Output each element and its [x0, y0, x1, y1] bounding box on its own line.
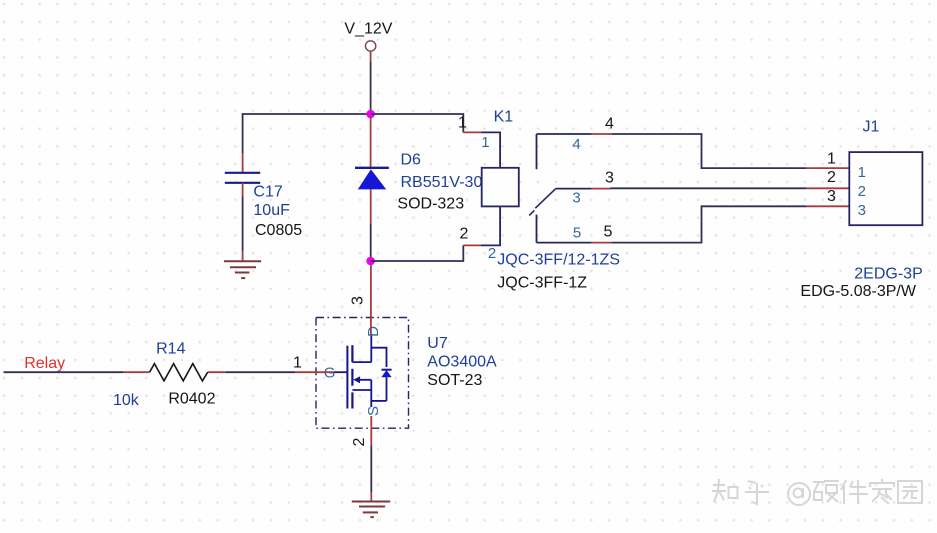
- svg-text:1: 1: [827, 151, 836, 168]
- transistor U7: [293, 265, 497, 446]
- svg-text:3: 3: [605, 170, 614, 187]
- svg-text:C0805: C0805: [255, 222, 302, 239]
- svg-text:10uF: 10uF: [253, 202, 290, 219]
- svg-text:EDG-5.08-3P/W: EDG-5.08-3P/W: [800, 283, 916, 300]
- svg-text:G: G: [324, 364, 336, 381]
- svg-text:2: 2: [351, 437, 368, 446]
- ground (U7 source): [352, 502, 390, 518]
- svg-text:2: 2: [460, 226, 469, 243]
- svg-text:U7: U7: [427, 335, 448, 352]
- svg-text:S: S: [365, 406, 382, 416]
- svg-text:D6: D6: [401, 152, 422, 169]
- svg-text:2EDG-3P: 2EDG-3P: [854, 265, 922, 282]
- svg-text:SOT-23: SOT-23: [427, 372, 482, 389]
- ground (C17): [224, 261, 261, 278]
- wire junction1 to C17: [243, 114, 371, 153]
- svg-text:SOD-323: SOD-323: [397, 195, 464, 212]
- svg-text:D: D: [365, 326, 382, 337]
- junction node V_12V: [366, 110, 375, 119]
- svg-text:10k: 10k: [113, 392, 140, 409]
- wire relay pin3 to J1 pin2: [610, 187, 806, 189]
- wire input: [4, 371, 124, 373]
- svg-text:3: 3: [827, 188, 836, 205]
- connector J1: [800, 119, 922, 301]
- svg-text:JQC-3FF/12-1ZS: JQC-3FF/12-1ZS: [497, 252, 620, 269]
- capacitor C17: [225, 153, 302, 239]
- wire U7 source to ground: [370, 445, 372, 492]
- wire junction1 to relay coil pin1: [371, 114, 464, 132]
- wire R14 to U7 gate: [225, 371, 295, 373]
- relay K1: [458, 109, 620, 292]
- svg-text:Relay: Relay: [24, 355, 65, 372]
- wire C17 to ground: [242, 197, 244, 251]
- watermark: [712, 479, 922, 505]
- svg-text:J1: J1: [863, 119, 880, 136]
- svg-text:1: 1: [858, 164, 866, 181]
- svg-text:JQC-3FF-1Z: JQC-3FF-1Z: [497, 275, 587, 292]
- svg-text:R0402: R0402: [168, 391, 215, 408]
- svg-text:4: 4: [572, 136, 580, 153]
- svg-text:2: 2: [827, 169, 836, 186]
- junction node 2: [366, 257, 375, 266]
- svg-text:3: 3: [858, 202, 866, 219]
- svg-text:V_12V: V_12V: [344, 21, 392, 38]
- wire power vertical: [370, 51, 372, 62]
- svg-text:C17: C17: [253, 184, 282, 201]
- svg-text:1: 1: [481, 134, 489, 151]
- svg-text:3: 3: [572, 190, 580, 207]
- wire relay pin4 to J1 pin1: [611, 134, 806, 168]
- svg-text:RB551V-30: RB551V-30: [401, 174, 483, 191]
- svg-text:3: 3: [350, 296, 367, 305]
- svg-text:2: 2: [858, 183, 866, 200]
- wire junction2 to relay coil pin2: [371, 245, 464, 261]
- power port V_12V: [344, 21, 392, 51]
- svg-text:K1: K1: [494, 109, 514, 126]
- svg-text:5: 5: [573, 224, 581, 241]
- wire relay pin5 to J1 pin3: [611, 206, 806, 242]
- svg-text:5: 5: [604, 223, 613, 240]
- svg-text:2: 2: [488, 245, 496, 262]
- diode D6: [355, 118, 482, 261]
- svg-text:1: 1: [293, 354, 302, 371]
- svg-text:R14: R14: [156, 341, 185, 358]
- svg-text:AO3400A: AO3400A: [427, 354, 497, 371]
- resistor R14: [113, 341, 225, 410]
- svg-text:4: 4: [605, 116, 614, 133]
- svg-text:1: 1: [458, 115, 467, 132]
